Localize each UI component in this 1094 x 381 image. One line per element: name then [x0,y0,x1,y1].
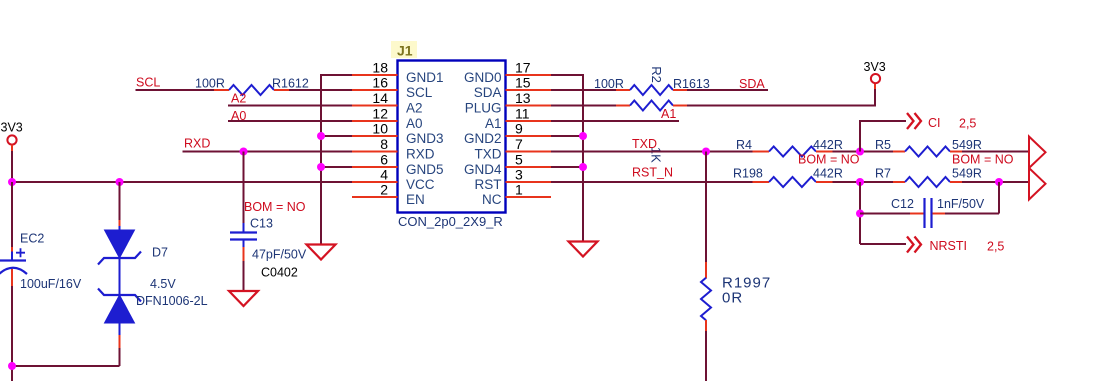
designator R1997 [722,275,771,292]
svg-text:12: 12 [372,105,388,121]
pin number 8 [380,136,388,152]
right ground bus [582,74,584,241]
pin number 12 [372,105,388,121]
pin 5 (GND4) stub [506,166,552,168]
TVS diode D7 [98,230,141,323]
wire to C12 left [860,213,924,215]
wire RST_N down [859,182,861,244]
pin name SDA [474,85,502,100]
designator EC2 [20,232,44,246]
svg-text:GND4: GND4 [464,162,502,177]
wire PLUG from pin 13 [551,105,616,107]
pin name A1 [485,116,502,131]
pin 15 (SDA) stub [506,89,552,91]
value 549R [952,138,982,152]
net label RXD [184,137,210,151]
junction [8,178,16,186]
value 0R [722,290,743,307]
power 3V3 left [1,121,23,145]
junction [856,148,864,156]
svg-text:GND2: GND2 [464,131,502,146]
svg-text:100uF/16V: 100uF/16V [20,277,82,291]
pin 11 (A1) stub [506,120,552,122]
resistor R2 upper (100R) [616,85,687,95]
svg-text:3: 3 [515,166,523,182]
resistor R7 (549R) [893,177,962,187]
svg-text:2: 2 [380,181,388,197]
pin name GND4 [464,162,502,177]
net label CI [928,116,941,130]
value 442R [813,138,843,152]
svg-text:10: 10 [372,120,388,136]
off-page connector NRSTI [907,237,921,253]
svg-text:D7: D7 [152,246,168,260]
svg-text:DFN1006-2L: DFN1006-2L [136,294,208,308]
text C0402 [261,266,298,280]
pin number 7 [515,136,523,152]
svg-text:17: 17 [515,59,531,75]
svg-text:R1612: R1612 [272,77,309,91]
value 100R [195,77,225,91]
net label A1 [661,107,676,121]
wire TXD [551,151,753,153]
svg-text:SDA: SDA [474,85,502,100]
svg-text:1K: 1K [649,147,664,163]
junction [8,362,16,370]
svg-text:6: 6 [380,151,388,167]
net label NRSTI [930,239,968,253]
svg-text:R1613: R1613 [673,77,710,91]
svg-text:0R: 0R [722,290,743,307]
pin number 13 [515,90,531,106]
off-page arrow lower [1029,168,1046,200]
svg-text:BOM = NO: BOM = NO [952,153,1014,167]
junction [317,163,325,171]
svg-text:5: 5 [515,151,523,167]
pin number 14 [372,90,388,106]
svg-text:BOM = NO: BOM = NO [244,200,306,214]
text BOM = NO [798,153,860,167]
svg-text:9: 9 [515,120,523,136]
svg-text:J1: J1 [397,43,413,59]
text DFN1006-2L [136,294,208,308]
junction [579,163,587,171]
designator R7 [875,167,891,181]
wire R7 to arrow [962,181,1029,183]
svg-text:1: 1 [515,181,523,197]
svg-text:EC2: EC2 [20,232,44,246]
svg-text:R5: R5 [875,138,891,152]
svg-text:A2: A2 [406,101,423,116]
svg-text:VCC: VCC [406,177,435,192]
svg-text:SCL: SCL [136,76,160,90]
pin name GND0 [464,70,502,85]
svg-text:2,5: 2,5 [987,240,1004,254]
svg-text:7: 7 [515,136,523,152]
wire R5 to arrow [962,151,1029,153]
value 100uF/16V [20,277,82,291]
ground [229,291,258,306]
pin 3 (RST) stub [506,181,552,183]
svg-text:C13: C13 [250,217,273,231]
svg-text:NC: NC [482,192,502,207]
resistor R1612 (100R) [214,85,289,95]
wire EC2 to bottom [11,269,13,381]
pin name RXD [406,147,435,162]
wire R198 to R7 [833,181,894,183]
wire TXD to R1997 [705,152,707,264]
svg-text:A1: A1 [485,116,502,131]
pin number 6 [380,151,388,167]
svg-text:11: 11 [515,105,530,121]
svg-text:TXD: TXD [475,147,502,162]
designator R198 [733,167,763,181]
svg-text:8: 8 [380,136,388,152]
pin name RST [475,177,502,192]
pin name A2 [406,101,423,116]
designator C12 [891,197,914,211]
wire C12 right [933,182,1000,214]
pin number 16 [372,74,388,90]
pin number 1 [515,181,523,197]
svg-text:R7: R7 [875,167,891,181]
svg-text:BOM = NO: BOM = NO [798,153,860,167]
wire RXD [183,151,353,153]
wire R1612 to pin 16 [289,89,352,91]
designator R1613 [673,77,710,91]
svg-text:15: 15 [515,74,531,90]
text BOM = NO [952,153,1014,167]
svg-text:SDA: SDA [739,77,765,91]
svg-text:C12: C12 [891,197,914,211]
svg-text:549R: 549R [952,138,982,152]
part name CON_2p0_2X9_R [398,214,503,229]
wire RST_N [551,181,753,183]
svg-text:RXD: RXD [184,137,210,151]
junction [995,178,1003,186]
junction [116,178,124,186]
svg-text:PLUG: PLUG [465,101,502,116]
text BOM = NO [244,200,306,214]
svg-text:R2: R2 [649,66,664,83]
designator R5 [875,138,891,152]
svg-text:GND1: GND1 [406,70,444,85]
svg-text:C0402: C0402 [261,266,298,280]
svg-text:RXD: RXD [406,147,435,162]
net label A2 [231,92,246,106]
pin 9 (GND2) stub [506,135,552,137]
junction [856,178,864,186]
wire GND5 to bus [321,166,352,168]
pin 16 (SCL) stub [352,89,398,91]
svg-text:R198: R198 [733,167,763,181]
off-page connector CI [907,113,921,129]
resistor R5 (549R) [893,147,962,157]
pin name VCC [406,177,435,192]
svg-text:16: 16 [372,74,388,90]
svg-text:47pF/50V: 47pF/50V [252,248,307,262]
junction [702,148,710,156]
value 47pF/50V [252,248,307,262]
wire SCL [136,89,215,91]
capacitor C12 [925,198,932,228]
wire to CI port [860,120,906,152]
text 1K (rotated) [649,147,664,163]
value 549R [952,167,982,181]
pin number 2 [380,181,388,197]
wire A2 [228,105,352,107]
wire GND1 to bus [321,74,352,76]
pin number 4 [380,166,388,182]
wire GND3 to bus [321,135,352,137]
designator C13 [250,217,273,231]
svg-text:A0: A0 [406,116,423,131]
pin number 9 [515,120,523,136]
pin 14 (A2) stub [352,105,398,107]
wire PLUG to 3V3 [687,83,876,105]
net label A0 [231,109,246,123]
pin name A0 [406,116,423,131]
wire A1 [551,120,679,122]
junction [317,132,325,140]
resistor R2 lower (100R) [616,101,687,111]
wire C13 to ground [243,241,245,291]
svg-text:442R: 442R [813,167,843,181]
value 442R [813,167,843,181]
net label TXD [632,137,657,151]
designator D7 [152,246,168,260]
value 4.5V [150,277,176,291]
power 3V3 right [864,60,886,83]
wire SDA from pin 15 [551,89,616,91]
pin name TXD [475,147,502,162]
svg-text:CON_2p0_2X9_R: CON_2p0_2X9_R [398,214,503,229]
net label SCL [136,76,160,90]
pin 13 (PLUG) stub [506,105,552,107]
svg-text:EN: EN [406,192,425,207]
capacitor EC2 (polarized) [0,248,27,274]
pin name NC [482,192,502,207]
ground [569,242,598,257]
pin 8 (RXD) stub [352,151,398,153]
svg-text:13: 13 [515,90,531,106]
wire VCC rail [12,181,352,183]
pin name GND3 [406,131,444,146]
left ground bus [320,74,322,244]
pin 6 (GND5) stub [352,166,398,168]
resistor R1997 (0R) [701,262,711,332]
svg-text:RST_N: RST_N [632,166,673,180]
value 1nF/50V [937,197,985,211]
off-page arrow upper [1029,137,1046,169]
wire 3V3 to VCC rail [11,145,13,182]
pin number 17 [515,59,531,75]
wire R1997 down [705,331,707,381]
svg-text:NRSTI: NRSTI [930,239,968,253]
svg-text:SCL: SCL [406,85,433,100]
pin 1 (NC) stub [506,196,552,198]
pin 10 (GND3) stub [352,135,398,137]
pin name PLUG [465,101,502,116]
resistor R4 (442R) [753,147,833,157]
svg-text:2,5: 2,5 [959,117,976,131]
wire GND2 to bus [551,135,583,137]
wire GND4 to bus [551,166,583,168]
wire D7 to bottom [119,323,121,366]
text 2,5 [959,117,976,131]
pin name GND2 [464,131,502,146]
svg-text:3V3: 3V3 [1,121,23,135]
pin 7 (TXD) stub [506,151,552,153]
wire to NRSTI port [860,243,906,245]
svg-text:4.5V: 4.5V [150,277,176,291]
designator R2 (rotated) [649,66,664,83]
designator R4 [736,138,752,152]
wire SDA [687,89,768,91]
wire RXD to C13 [243,152,245,232]
net label SDA [739,77,765,91]
junction [240,148,248,156]
svg-text:442R: 442R [813,138,843,152]
pin 2 (EN) stub [352,196,398,198]
pin number 15 [515,74,531,90]
wire to EC2 [11,182,13,260]
net label RST_N [632,166,673,180]
pin number 5 [515,151,523,167]
junction [579,132,587,140]
pin number 3 [515,166,523,182]
svg-text:R4: R4 [736,138,752,152]
wire to D7 [119,182,121,231]
svg-text:GND0: GND0 [464,70,502,85]
pin 17 (GND0) stub [506,74,552,76]
svg-text:100R: 100R [195,77,225,91]
ground [307,245,336,260]
svg-text:A2: A2 [231,92,246,106]
pin number 10 [372,120,388,136]
wire R4 to R5 [833,151,894,153]
svg-text:1nF/50V: 1nF/50V [937,197,985,211]
svg-text:549R: 549R [952,167,982,181]
svg-text:GND3: GND3 [406,131,444,146]
pin 4 (VCC) stub [352,181,398,183]
svg-text:4: 4 [380,166,388,182]
wire bottom link [12,365,120,367]
svg-text:A1: A1 [661,107,676,121]
text 2,5 [987,240,1004,254]
svg-text:3V3: 3V3 [864,60,886,74]
pin number 18 [372,59,388,75]
wire A0 [228,120,352,122]
pin number 11 [515,105,530,121]
pin name GND1 [406,70,444,85]
capacitor C13 [230,233,257,240]
svg-text:CI: CI [928,116,941,130]
pin name EN [406,192,425,207]
junction [856,210,864,218]
svg-text:14: 14 [372,90,388,106]
pin 12 (A0) stub [352,120,398,122]
wire GND0 to bus [551,74,583,76]
value 100R [594,77,624,91]
pin name SCL [406,85,433,100]
connector J1 body [398,61,506,213]
svg-text:18: 18 [372,59,388,75]
svg-text:RST: RST [475,177,502,192]
designator R1612 [272,77,309,91]
resistor R198 (442R) [753,177,833,187]
svg-text:GND5: GND5 [406,162,444,177]
designator J1 [391,41,417,59]
pin 18 (GND1) stub [352,74,398,76]
svg-text:100R: 100R [594,77,624,91]
pin name GND5 [406,162,444,177]
